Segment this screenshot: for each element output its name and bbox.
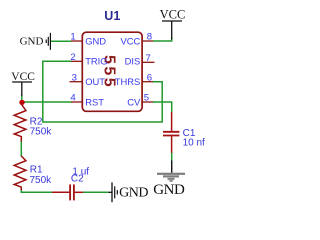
capacitor C2 1uf bbox=[52, 191, 69, 193]
wire C2 right to bottom GND bbox=[83, 191, 109, 193]
svg-text:7: 7 bbox=[146, 53, 151, 64]
wire between R2 and R1 bbox=[20, 141, 22, 157]
wire GND symbol to pin 1 bbox=[51, 40, 72, 42]
svg-text:VCC: VCC bbox=[121, 35, 141, 46]
wire VCC junction to pin 4 RST bbox=[22, 101, 72, 103]
pin 4 RST stub bbox=[71, 101, 82, 103]
svg-text:R1: R1 bbox=[30, 164, 43, 175]
svg-text:750k: 750k bbox=[30, 175, 53, 186]
svg-text:OUT: OUT bbox=[85, 76, 105, 87]
junction node dot (VCC / R2 / RST) bbox=[19, 100, 24, 105]
svg-text:8: 8 bbox=[147, 32, 152, 43]
svg-text:THRS: THRS bbox=[115, 76, 141, 87]
svg-text:VCC: VCC bbox=[160, 7, 186, 21]
svg-text:DIS: DIS bbox=[125, 56, 141, 67]
svg-text:GND: GND bbox=[119, 186, 148, 201]
wire pin 8 to VCC symbol bbox=[153, 38, 172, 42]
svg-text:GND: GND bbox=[153, 182, 185, 198]
pin 2 TRIG stub bbox=[71, 60, 82, 62]
pin 1 GND stub bbox=[71, 40, 82, 42]
svg-text:VCC: VCC bbox=[11, 71, 35, 83]
wire R1 bottom to C2 left bbox=[21, 190, 52, 193]
wire C1 bottom to ground bbox=[171, 153, 173, 162]
resistor R2 750k bbox=[14, 102, 26, 142]
svg-text:RST: RST bbox=[85, 96, 104, 107]
wire TRIG to THRS (pin2 left, down, right, up to pin6) bbox=[43, 61, 162, 122]
svg-text:GND: GND bbox=[85, 35, 106, 46]
wire pin 5 CV down to C1 bbox=[153, 102, 172, 113]
pin 5 CV stub bbox=[142, 101, 153, 103]
pin 8 VCC stub bbox=[142, 40, 153, 42]
svg-text:U1: U1 bbox=[104, 9, 120, 23]
capacitor C1 10nf bbox=[171, 112, 173, 131]
svg-text:10 nf: 10 nf bbox=[183, 138, 205, 149]
svg-text:3: 3 bbox=[72, 72, 77, 83]
wire VCC left stem lower part bbox=[21, 95, 23, 102]
svg-text:6: 6 bbox=[147, 72, 152, 83]
svg-text:CV: CV bbox=[127, 96, 141, 107]
GND symbol bottom middle bbox=[109, 191, 112, 193]
svg-text:GND: GND bbox=[20, 36, 44, 48]
svg-text:TRIG: TRIG bbox=[85, 56, 107, 67]
pin 6 THRS stub bbox=[142, 81, 153, 83]
GND earth symbol under C1 bbox=[171, 161, 173, 173]
svg-text:750k: 750k bbox=[30, 127, 53, 138]
resistor R1 750k bbox=[14, 156, 26, 190]
op-amp U1 body (555 IC box) bbox=[82, 32, 142, 111]
pin 7 DIS stub bbox=[142, 61, 154, 63]
pin 3 OUT stub bbox=[70, 81, 83, 83]
svg-text:5: 5 bbox=[144, 93, 149, 104]
svg-text:C2: C2 bbox=[71, 174, 84, 185]
